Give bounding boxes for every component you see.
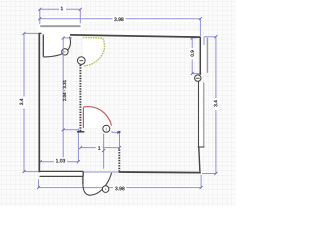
text 3.4 (right, rotated) [214, 100, 217, 106]
small dim h at 132.4 [112, 131, 119, 132]
top wall [70, 35, 201, 37]
left wall top cap [39, 32, 42, 34]
red door leaf + arc [83, 107, 111, 129]
bottom door swing white [83, 173, 112, 196]
tick at 118.8,132 [118, 131, 121, 133]
entry door swing white [43, 35, 70, 57]
dashed wall 1 cap [77, 131, 84, 133]
gray line right upper [206, 38, 208, 73]
bottom door arc [83, 173, 112, 195]
riser x=103.6 [103, 134, 105, 169]
text 2.04 - 3.31 (rotated) [63, 80, 66, 101]
entry door arc [44, 37, 71, 57]
red door knob [103, 125, 110, 132]
dim 3.4 left: line + ticks [24, 33, 39, 171]
dim 1.03 [40, 161, 78, 163]
dim 1 middle [81, 147, 120, 149]
bottom-left wall band [39, 171, 83, 176]
dimension text white masks [19, 5, 220, 191]
dim end ticks [23, 8, 218, 189]
green door leaf + arc (dotted) [83, 37, 105, 65]
left wall [38, 33, 40, 172]
bottom-left wall band white [39, 171, 83, 176]
gray line above entry (wall over) [40, 25, 80, 27]
dashed wall 2 [118, 150, 120, 172]
dim 1 top: line + risers [40, 9, 81, 24]
top-left dim zone white patch [39, 22, 82, 35]
riser x=78.4 [77, 129, 79, 162]
text 1 (top) [61, 7, 63, 10]
strip under top 3.98 dim [39, 17, 201, 22]
right window bottom cap [198, 146, 205, 148]
dim 3.98 bottom + risers [39, 174, 216, 188]
entry jamb [42, 34, 44, 57]
right window left edge [198, 81, 200, 147]
dim 3.4 right [204, 37, 216, 174]
red door swing white [83, 107, 111, 128]
band above top wall [69, 31, 201, 37]
text 3.98 (bottom) [115, 187, 124, 191]
text 1 (middle) [98, 146, 100, 149]
socket circle right wall [195, 75, 201, 81]
bottom wall right [119, 171, 201, 174]
bottom door leaf [82, 176, 84, 184]
text 3.4 (left, rotated) [20, 99, 23, 105]
green door swing white [83, 37, 105, 65]
dim 0.9 right [192, 38, 201, 74]
right window white [198, 82, 204, 147]
right wall lower [199, 147, 200, 172]
strip under bottom 3.98 dim [38, 185, 201, 190]
white underlays [38, 17, 208, 196]
entry knob circle [62, 49, 68, 55]
green door knob circle [78, 57, 86, 65]
right window right edge (gray) [203, 83, 205, 147]
right wall upper band white [200, 37, 207, 74]
right wall upper [199, 37, 201, 75]
dim 3.98 top: line + right riser [40, 19, 201, 36]
bottom door knob [102, 186, 109, 193]
text 3.98 (top) [114, 18, 123, 22]
dashed wall 1 [79, 65, 81, 132]
riser x=119.3 (above dashed wall) [119, 133, 121, 150]
blue dim overlay across entry knob [62, 48, 64, 55]
blue line across bottom door opening [84, 171, 119, 173]
text 1.03 [56, 159, 65, 163]
dim middle 2.04-3.31 [63, 38, 78, 158]
text 0.9 (rotated) [191, 50, 194, 56]
